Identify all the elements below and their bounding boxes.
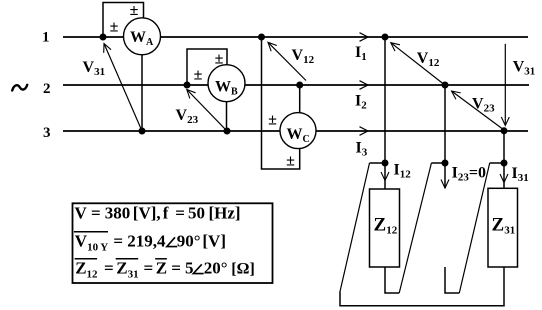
svg-text:I1: I1	[355, 44, 367, 63]
svg-text:=: =	[113, 232, 123, 251]
wire W_A bottom to line 3	[141, 55, 143, 132]
svg-text:=: =	[171, 259, 181, 278]
parameter box	[73, 203, 273, 283]
svg-text:±: ±	[110, 19, 119, 36]
svg-text:V12: V12	[292, 47, 315, 66]
svg-text:f: f	[163, 203, 169, 222]
wire node C stub	[490, 162, 504, 164]
wattmeter W_B	[208, 65, 245, 102]
arrow I1 on line 1	[360, 33, 369, 42]
wire Z12 bottom return	[385, 267, 399, 293]
svg-text:[Hz]: [Hz]	[209, 203, 241, 222]
node line1 W_C tap	[258, 34, 265, 41]
impedance Z12	[370, 189, 400, 267]
node line2 W_B	[184, 82, 191, 89]
impedance Z31	[488, 188, 518, 267]
svg-text:20°: 20°	[204, 259, 228, 278]
node line3 W_A tap	[139, 128, 146, 135]
svg-text:5: 5	[185, 259, 194, 278]
arrow I3 on line 3	[360, 127, 369, 136]
wire node A stub	[370, 162, 386, 164]
svg-text:3: 3	[43, 125, 51, 141]
wire W_B voltage bracket	[187, 49, 227, 85]
wire line 1	[63, 36, 528, 38]
svg-text:1: 1	[42, 30, 50, 46]
svg-text:380: 380	[105, 203, 131, 222]
arrow V23 left	[187, 90, 227, 132]
wire diagonal node A down	[340, 163, 370, 292]
arrow V31 right	[504, 44, 506, 126]
svg-text:V31: V31	[83, 59, 106, 78]
value line Z	[75, 258, 98, 260]
wire branch 1 vertical	[384, 37, 386, 163]
svg-text:=: =	[91, 203, 101, 222]
svg-text:±: ±	[268, 112, 277, 129]
svg-text:V31: V31	[513, 59, 536, 78]
svg-text:I12: I12	[394, 162, 412, 181]
svg-text:=: =	[144, 259, 154, 278]
node line1 branch	[382, 34, 389, 41]
svg-text:I2: I2	[355, 93, 367, 112]
svg-text:=: =	[104, 259, 114, 278]
node junction C	[501, 160, 508, 167]
node junction A	[382, 160, 389, 167]
wire W_C voltage bracket to line 1	[262, 37, 300, 169]
wire diagonal open branch to node C	[459, 163, 489, 293]
svg-text:[Ω]: [Ω]	[231, 261, 254, 278]
svg-text:±: ±	[286, 153, 295, 170]
value line V10Y	[74, 231, 108, 233]
svg-text:2: 2	[43, 81, 51, 97]
wattmeter W_C	[280, 113, 316, 149]
svg-text:219,4: 219,4	[127, 232, 166, 251]
svg-text:[V]: [V]	[202, 232, 226, 251]
arrow I12	[384, 163, 386, 181]
wire node B stub	[431, 162, 445, 164]
node line2 W_C tap	[296, 82, 303, 89]
node line3 branch	[501, 127, 508, 134]
arrow V23 right	[452, 91, 505, 130]
wire branch 3 vertical	[503, 131, 505, 163]
arrow I2 on line 2	[360, 81, 369, 90]
svg-text:V23: V23	[176, 107, 199, 126]
arrow V12 right	[391, 43, 444, 85]
source tilde	[12, 85, 27, 91]
svg-text:=: =	[175, 203, 185, 222]
node line2 branch	[442, 82, 449, 89]
wire W_B bottom to line 3	[226, 102, 228, 132]
wattmeter W_A	[124, 18, 161, 55]
arrow I31	[503, 163, 505, 183]
arrow V31 left	[104, 44, 142, 132]
svg-text:V: V	[75, 203, 88, 222]
node line1 W_A	[100, 34, 107, 41]
svg-text:Z: Z	[156, 259, 167, 278]
arrow V12 left	[268, 42, 306, 80]
wire line 3	[63, 130, 528, 132]
svg-text:I3: I3	[356, 140, 368, 159]
wire bottom bus	[340, 267, 504, 306]
wire W_A voltage bracket	[103, 3, 144, 38]
node line3 W_B tap	[224, 128, 231, 135]
svg-text:I23=0: I23=0	[452, 165, 486, 184]
svg-text:±: ±	[194, 67, 203, 84]
wire open branch bottom	[445, 267, 459, 293]
svg-text:V12: V12	[417, 50, 440, 69]
svg-text:90°: 90°	[177, 232, 201, 251]
svg-text:[V],: [V],	[133, 203, 161, 222]
wire line 2	[63, 84, 529, 86]
svg-text:±: ±	[130, 2, 139, 19]
node junction B	[442, 160, 449, 167]
svg-text:V23: V23	[472, 96, 495, 115]
wire diagonal Z12 to node B	[399, 163, 431, 293]
svg-text:50: 50	[188, 203, 205, 222]
arrow I23 open	[444, 163, 446, 188]
wire branch 2 vertical	[444, 85, 446, 163]
wire W_C top to line 2	[299, 85, 301, 113]
svg-text:I31: I31	[512, 165, 529, 184]
